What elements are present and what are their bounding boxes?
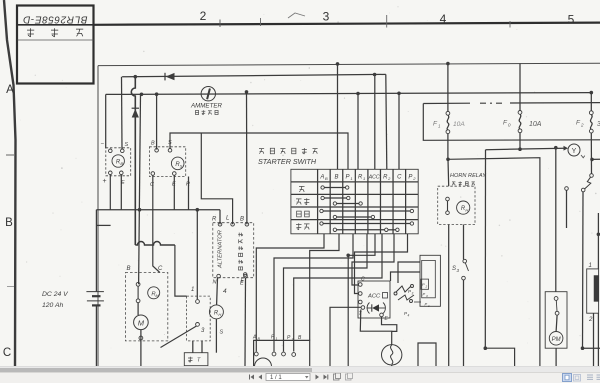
- wire acc box feed: [352, 234, 394, 285]
- svg-text:1: 1: [438, 124, 441, 129]
- starter switch table grid: [291, 169, 418, 234]
- label pin 3: [201, 328, 205, 334]
- wire table col AB down-left to connector: [256, 234, 324, 352]
- switch contact 1: [196, 300, 200, 304]
- wire pump internal: [556, 315, 557, 331]
- pinion switch box: [187, 296, 211, 341]
- svg-text:L: L: [226, 216, 229, 222]
- label conn AB: [252, 335, 261, 342]
- acc diode in parens: [367, 303, 386, 314]
- svg-text:P: P: [346, 175, 350, 181]
- wire acc E route: [382, 317, 397, 332]
- grid number 4: [440, 12, 447, 26]
- label RS R: [186, 182, 190, 188]
- svg-text:M: M: [138, 319, 145, 328]
- node resistor feed: [597, 233, 600, 237]
- fuse F1: [446, 111, 450, 133]
- acc terminal C: [359, 277, 366, 287]
- svg-text:2: 2: [588, 317, 593, 323]
- svg-text:2: 2: [387, 176, 391, 181]
- label box C: [158, 266, 163, 272]
- title block row separator (thick, top line start): [17, 24, 94, 26]
- label STARTER SWITH: [258, 157, 317, 166]
- label F1 10A: [453, 121, 465, 128]
- svg-text:3: 3: [201, 328, 205, 334]
- regulator RB circle: [112, 155, 124, 167]
- wire table col C to acc box: [355, 234, 408, 294]
- wire pm feed: [555, 148, 557, 292]
- switch blade diagonal: [161, 326, 197, 348]
- svg-text:S: S: [452, 266, 456, 272]
- inner frame top edge: [98, 63, 600, 65]
- wire bus-A drop to table col B: [337, 64, 339, 169]
- svg-text:1: 1: [589, 263, 592, 269]
- wire charge line bumpy horizontal: [135, 242, 175, 246]
- svg-text:4: 4: [223, 288, 227, 295]
- wire pump bottom: [555, 348, 557, 366]
- stub right from F2 branch: [592, 158, 600, 160]
- terminal E on wire: [241, 273, 248, 284]
- fuse F2: [589, 111, 593, 133]
- svg-text:B: B: [127, 266, 131, 272]
- label RB E: [121, 180, 125, 186]
- grid tick at 220: [219, 20, 221, 28]
- wire F2 feed: [590, 93, 592, 111]
- node bus-C at F2: [590, 91, 594, 95]
- sheet top border line (tilted): [94, 23, 600, 25]
- svg-text:P: P: [408, 175, 412, 181]
- RB terminal S: [121, 149, 125, 153]
- wire bus-C (ammeter bus): [106, 93, 592, 95]
- label alt E: [240, 281, 244, 287]
- wire table col R1 down-left: [284, 234, 368, 352]
- wire bus-A corner to F0: [519, 63, 521, 110]
- node pm feed: [554, 146, 558, 150]
- wire motor bottom: [140, 330, 142, 366]
- node bottom right: [581, 346, 585, 350]
- nc stub: [414, 301, 421, 303]
- diode D2 (vertical, pointing up): [132, 108, 139, 117]
- switch S3 blade: [465, 263, 468, 271]
- battery B1 plate long 2: [87, 300, 104, 302]
- wire RB E down: [120, 175, 122, 210]
- alternator terminal N: [217, 274, 221, 278]
- wire thick charge line with hop: [131, 77, 135, 245]
- battery positive rail: [96, 209, 220, 211]
- label ACC: [367, 293, 388, 300]
- starter switch table outer box: [291, 169, 418, 234]
- wire box bottom terminal: [139, 336, 143, 340]
- label conn P1: [271, 335, 278, 342]
- label F2: [576, 120, 584, 128]
- wire alternator B feed: [246, 92, 248, 224]
- label alt B: [240, 217, 244, 223]
- switch S3 top contact: [463, 259, 467, 263]
- title block kanji 加 工 図: [27, 28, 83, 37]
- relay coil RM circle: [148, 287, 160, 299]
- grid number 2: [200, 9, 207, 23]
- wire RS R down to rail: [188, 177, 190, 210]
- wire RS B feed: [156, 94, 158, 149]
- grid tick at 510: [509, 21, 511, 28]
- starter switch column headers: [319, 175, 416, 182]
- wire switch left down: [566, 190, 568, 228]
- alternator terminal E: [244, 274, 248, 278]
- label 120Ah: [42, 302, 64, 309]
- starter relay box B-C: [125, 273, 167, 341]
- acc unit box: [358, 281, 390, 318]
- title block row separator thin: [18, 39, 94, 41]
- label nc P1: [425, 302, 431, 309]
- glow resistor element: [594, 276, 598, 302]
- svg-text:2: 2: [580, 123, 584, 128]
- svg-text:N: N: [213, 280, 217, 286]
- pump motor PM: [549, 332, 563, 346]
- svg-text:1 / 1: 1 / 1: [270, 375, 282, 381]
- label S3: [452, 266, 460, 273]
- horn relay contact bottom: [446, 211, 450, 215]
- label resistor 2: [588, 317, 593, 323]
- label RS E: [172, 182, 176, 188]
- stub near battery: [96, 224, 110, 226]
- svg-text:H: H: [218, 312, 221, 317]
- label ammeter katakana: [195, 110, 218, 115]
- svg-text:B: B: [334, 175, 338, 181]
- voltage regulator RB box: [106, 148, 131, 176]
- svg-text:AMMETER: AMMETER: [190, 103, 222, 110]
- wire right edge lower: [597, 313, 599, 366]
- connector box: [254, 340, 310, 366]
- ammeter needle: [207, 89, 210, 100]
- svg-text:S: S: [125, 142, 129, 148]
- label F0 10A: [529, 121, 542, 128]
- node acc drop: [346, 254, 350, 258]
- horn relay box: [438, 186, 475, 224]
- nested connector inner: [422, 260, 436, 297]
- svg-text:HORN RELAY: HORN RELAY: [450, 173, 487, 179]
- wire RS S up and right to table P1: [170, 133, 348, 169]
- alternator terminal B: [245, 223, 249, 227]
- alternator box: [213, 223, 254, 278]
- nested connector small box: [421, 279, 429, 289]
- wire horn relay feed: [447, 159, 450, 186]
- svg-text:B: B: [120, 161, 123, 166]
- switch row4 contacts B: [333, 228, 399, 231]
- RB terminal E: [120, 171, 124, 175]
- acc terminal 2: [359, 292, 363, 296]
- svg-text:T: T: [197, 358, 201, 364]
- svg-text:C: C: [158, 266, 163, 272]
- label nc P3: [423, 292, 429, 299]
- node on frame/bus at B column: [336, 62, 340, 66]
- svg-text:H: H: [465, 208, 468, 213]
- wire battery bottom: [95, 305, 97, 366]
- node rail at switch feed: [196, 208, 200, 212]
- svg-text:B: B: [151, 141, 155, 147]
- wire nc to acc 2: [391, 272, 421, 281]
- wire bus-B left corner down to RB S: [121, 77, 124, 149]
- ammeter M1 circle: [201, 87, 215, 101]
- flasher contact scribble: [394, 285, 414, 303]
- wire table col P1 down-left: [274, 234, 353, 352]
- node bus-C at C col: [397, 92, 401, 96]
- row label yonetsu: [296, 198, 310, 205]
- acc terminal T: [359, 306, 365, 317]
- row letter B: [5, 217, 13, 229]
- switch SW contact upper: [590, 174, 594, 178]
- grid tick at 387: [386, 15, 388, 28]
- node F0 horn line: [518, 147, 522, 151]
- node bus-C at 141: [140, 93, 144, 97]
- label alt N: [213, 280, 217, 286]
- regulator RS box: [149, 147, 185, 177]
- svg-text:2: 2: [412, 176, 416, 181]
- wire RS E stub: [173, 175, 175, 209]
- switch row1 contacts: [321, 186, 349, 189]
- relay contact bar: [137, 286, 139, 299]
- wire bus-C drop to table col R1: [357, 94, 359, 170]
- wire bus-B drop to table col ACC: [374, 75, 376, 170]
- wire starter-relay B feed (vertical 139): [139, 94, 141, 284]
- label nc P2: [422, 282, 428, 289]
- label resistor 1: [589, 263, 592, 269]
- lamp circle: [382, 345, 402, 365]
- horn relay contact bar: [447, 201, 449, 211]
- wire resistor feed: [597, 213, 599, 269]
- title block outer box: [17, 6, 94, 84]
- svg-text:S: S: [180, 163, 183, 168]
- horn feed corner: [484, 150, 486, 349]
- node bus-C alternator B drop: [245, 90, 249, 94]
- label conn P3: [287, 335, 294, 342]
- wire table col R2a down-left: [294, 234, 382, 352]
- label F2 amps: [597, 121, 600, 128]
- svg-text:10A: 10A: [453, 121, 465, 128]
- inner frame left edge: [97, 66, 99, 366]
- node bus-A to F1: [446, 62, 450, 66]
- svg-text:PM: PM: [552, 337, 561, 343]
- svg-text:A: A: [6, 84, 14, 96]
- wire RS C down to starter relay box: [153, 175, 160, 272]
- wire motor link: [137, 303, 139, 315]
- wire resistor down: [593, 313, 595, 366]
- node F1 bottom: [446, 158, 450, 162]
- wire bus-C left corner down to RB minus: [105, 94, 107, 148]
- svg-text:A: A: [319, 175, 324, 181]
- switch row4 contacts A: [320, 222, 414, 225]
- svg-text:C: C: [361, 277, 365, 283]
- relay contact top: [136, 282, 140, 286]
- wire battery top: [95, 210, 97, 292]
- svg-text:S: S: [220, 330, 224, 336]
- glow resistor box: [587, 269, 599, 313]
- svg-text:2: 2: [200, 9, 207, 23]
- acc terminal E: [380, 313, 389, 322]
- wire S3 down: [463, 280, 465, 366]
- wire below switch b: [201, 341, 203, 353]
- wire table col ACC to acc box: [348, 234, 375, 366]
- svg-text:B: B: [325, 176, 328, 181]
- pump blade: [555, 300, 558, 311]
- label S below: [220, 330, 224, 336]
- node bus-B thick feed: [134, 75, 138, 79]
- alternator terminal L: [231, 223, 235, 227]
- svg-text:10A: 10A: [529, 121, 542, 128]
- wire table col B down-left: [310, 234, 339, 341]
- label conn B: [298, 335, 302, 341]
- connector pin 3: [282, 352, 286, 356]
- svg-text:ACC: ACC: [368, 175, 380, 181]
- RS terminal E: [173, 172, 177, 176]
- node bus-C at RS B: [155, 92, 159, 96]
- label RS C: [150, 182, 154, 188]
- svg-text:+: +: [103, 178, 107, 185]
- label AMMETER: [190, 103, 222, 110]
- svg-text:Y: Y: [572, 148, 577, 155]
- fuse F0: [518, 111, 522, 133]
- svg-text:1: 1: [363, 176, 365, 181]
- RS terminal B: [155, 149, 159, 153]
- alternator terminal R: [218, 223, 222, 227]
- svg-text:ALTERNATOR: ALTERNATOR: [218, 229, 224, 269]
- label pin 1: [191, 287, 194, 293]
- RS terminal C: [151, 172, 155, 176]
- label RS S: [168, 140, 172, 146]
- label alternator katakana vertical: [238, 233, 243, 270]
- svg-text:C: C: [397, 175, 402, 181]
- page edge shadow bar (left): [4, 0, 16, 366]
- wire tap to alternator L: [201, 133, 232, 224]
- label horn relay katakana: [452, 182, 475, 186]
- battery B1 plate short 1: [92, 295, 101, 297]
- wire rail to alternator R: [219, 210, 221, 225]
- wire RB plus to battery rail: [109, 175, 111, 210]
- label F0: [503, 120, 511, 128]
- switch row3 contacts A: [320, 209, 414, 218]
- wire nc to acc 1: [398, 262, 420, 283]
- row label shidou: [296, 223, 310, 230]
- label RB S: [125, 142, 129, 148]
- wire charge line drop: [175, 245, 187, 296]
- wire below switch a: [192, 341, 194, 353]
- wire switch down: [582, 192, 585, 348]
- RB terminal minus: [109, 149, 113, 153]
- pump contact 2: [555, 311, 559, 315]
- glow timer box: [184, 353, 208, 366]
- svg-text:4: 4: [408, 314, 410, 318]
- row tick B/C: [7, 286, 14, 288]
- grid number 3: [323, 9, 330, 23]
- row tick A/B: [6, 154, 14, 156]
- node horn feed bottom: [484, 346, 488, 350]
- svg-text:120 Ah: 120 Ah: [42, 302, 64, 309]
- grid tick at 260: [260, 18, 262, 26]
- svg-text:3: 3: [412, 292, 414, 296]
- pump contact 1: [554, 297, 558, 301]
- svg-text:B: B: [5, 217, 13, 229]
- svg-text:A: A: [252, 335, 257, 341]
- acc terminal 3: [359, 300, 363, 304]
- wire RH down: [215, 319, 217, 353]
- RB terminal plus: [109, 171, 113, 175]
- svg-text:1: 1: [191, 287, 194, 293]
- grid number 5: [568, 13, 575, 27]
- svg-text:3: 3: [457, 268, 460, 273]
- switch row2 contacts B: [333, 202, 362, 205]
- connector pin 4: [292, 353, 296, 357]
- motor M circle: [134, 315, 149, 330]
- battery B1 plate short 2: [92, 304, 101, 306]
- label ALTERNATOR rotated: [218, 229, 224, 269]
- wire bus-C drop to table col C: [398, 93, 400, 169]
- wire bottom jog: [485, 348, 514, 366]
- wire alt E down: [244, 278, 247, 366]
- connector pin 1: [254, 352, 258, 356]
- label box B: [127, 266, 131, 272]
- svg-text:3: 3: [426, 294, 428, 298]
- check mark scribble: [288, 13, 305, 18]
- svg-text:DC 24 V: DC 24 V: [42, 291, 69, 298]
- wire bus-B right corner to table col R2: [386, 74, 387, 169]
- svg-text:E: E: [241, 278, 245, 284]
- wire horn switch branch: [463, 225, 465, 260]
- battery B1 plate long 1: [86, 291, 104, 293]
- wire F2 bottom: [590, 133, 592, 174]
- svg-text:R: R: [212, 217, 217, 223]
- node bus-C at R1 col: [356, 92, 360, 96]
- wire F1 feed vertical: [447, 64, 449, 112]
- horn relay contact top: [446, 197, 450, 201]
- svg-text:−: −: [101, 142, 105, 148]
- switch SW blade zigzag: [585, 177, 591, 189]
- label 4: [223, 288, 227, 295]
- switch SW contact mid: [581, 188, 585, 192]
- wire horn relay down: [448, 225, 450, 367]
- label DC24V: [42, 291, 69, 298]
- svg-text:C: C: [3, 347, 11, 359]
- switch row2 contacts A: [321, 196, 350, 199]
- fuse box outline: [423, 103, 600, 141]
- wire F1 bottom to node: [447, 134, 449, 160]
- svg-text:2: 2: [425, 285, 428, 289]
- label P4 small: [404, 311, 410, 318]
- node F2 branch: [590, 158, 594, 162]
- svg-text:5: 5: [568, 13, 575, 27]
- svg-text:B: B: [240, 217, 244, 223]
- svg-text:STARTER SWITH: STARTER SWITH: [258, 157, 317, 166]
- horn relay coil RH: [457, 201, 470, 214]
- horn mark: [581, 155, 585, 158]
- relay RH circle mid: [209, 305, 223, 319]
- nested connector outer: [420, 255, 440, 306]
- diode D1 (on bus-B, pointing left): [165, 73, 175, 81]
- row label kiri: [299, 186, 305, 192]
- svg-text:4: 4: [440, 12, 447, 26]
- pump box: [545, 292, 567, 349]
- svg-text:ACC: ACC: [367, 294, 381, 300]
- row letter A: [6, 84, 14, 96]
- label P3 small: [408, 289, 414, 296]
- switch contact 3: [196, 323, 200, 327]
- label HORN RELAY: [450, 173, 487, 179]
- relay contact bottom: [136, 299, 140, 303]
- svg-text:3: 3: [323, 9, 330, 23]
- starter switch label katakana: [259, 148, 318, 154]
- wire F0 bottom: [519, 133, 521, 149]
- node bus-B ACC column: [373, 73, 377, 77]
- connector pin 2: [272, 352, 276, 356]
- horn Y circle: [568, 144, 580, 156]
